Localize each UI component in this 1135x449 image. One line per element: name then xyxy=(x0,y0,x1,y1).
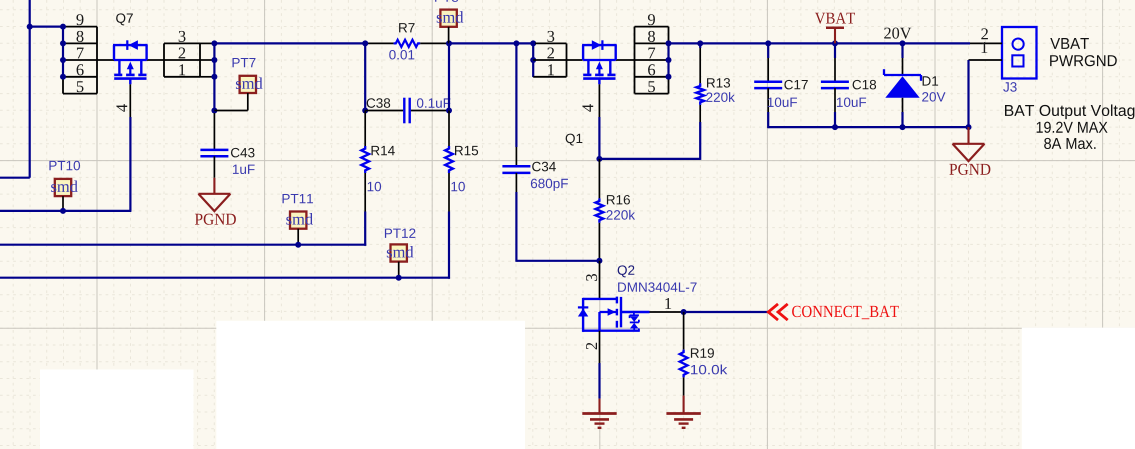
wire Q2 source to ground xyxy=(598,363,600,399)
transistor Q2 NMOS symbol xyxy=(578,297,650,332)
connector J3 xyxy=(1002,27,1037,92)
wire main bus R7 to Q1 xyxy=(449,40,536,46)
wire R15 to PT12 net xyxy=(0,212,450,279)
wire left vertical bus xyxy=(0,0,63,178)
Q2 pin 1 gate lead xyxy=(650,298,687,315)
wire Q7 left pin bus with junctions xyxy=(60,24,66,80)
diode D1 zener xyxy=(884,43,945,127)
wire Q1 gate net xyxy=(596,117,700,162)
wire Q1 source jumper xyxy=(530,43,536,77)
Q7 source pin box pins 3 2 1 xyxy=(164,31,214,77)
wire C34 to Q2 gate node xyxy=(516,192,602,264)
power PGND at J3 xyxy=(949,127,990,175)
Q1 drain pin box pins 9 8 7 6 5 xyxy=(635,14,669,94)
power VBAT xyxy=(815,13,855,44)
white occlusion rectangle bottom-right xyxy=(1022,328,1135,449)
resistor R7 xyxy=(362,23,452,59)
Q2 pin 2 lead xyxy=(586,331,599,363)
capacitor C18 xyxy=(821,43,876,127)
wire Q7 gate to PT10 net xyxy=(0,117,131,211)
wire source bus vertical xyxy=(211,40,217,113)
node PT10 xyxy=(49,161,80,214)
Q2 pin 3 lead xyxy=(586,261,599,299)
wire R14 branch xyxy=(362,43,368,113)
wire main bus Q1 to J3 xyxy=(669,40,971,46)
Q1 source pin box pins 3 2 1 xyxy=(533,31,566,77)
capacitor C17 xyxy=(754,43,808,128)
resistor R14 xyxy=(361,111,394,212)
ground R19 xyxy=(666,396,700,428)
Q2 label xyxy=(618,265,697,292)
power PGND under C43 xyxy=(195,178,236,225)
Q1 pin 4 gate lead xyxy=(582,84,599,117)
text BAT output note xyxy=(1005,104,1135,149)
white occlusion rectangle bottom-middle xyxy=(216,321,525,449)
text VBAT PWRGND xyxy=(1050,38,1117,66)
transistor Q7 PMOS symbol xyxy=(97,40,164,84)
capacitor C43 xyxy=(200,113,254,178)
wire R14 to PT11 net xyxy=(0,212,366,246)
resistor R16 xyxy=(596,159,636,261)
node PT12 xyxy=(385,228,415,280)
capacitor C34 xyxy=(502,43,568,192)
wire Q1 right pin bus xyxy=(666,40,672,79)
J3 pin 1 xyxy=(969,42,1003,127)
wire R15 branch xyxy=(446,43,452,113)
node PT11 xyxy=(283,194,314,248)
J3 pin 2 xyxy=(970,28,1002,43)
port CONNECT_BAT xyxy=(768,304,898,320)
node PT8 xyxy=(435,0,463,43)
resistor R13 xyxy=(696,43,735,122)
wire capacitor ground bus xyxy=(768,124,971,130)
capacitor C38 xyxy=(365,98,450,124)
Q7 label xyxy=(116,13,133,25)
wire main bus Q7 to R7 xyxy=(214,42,365,44)
ground Q2 source xyxy=(582,399,616,428)
Q7 drain pin box pins 9 8 7 6 5 xyxy=(63,14,97,94)
net label 20V xyxy=(884,28,911,39)
white occlusion rectangle bottom-left xyxy=(40,370,194,449)
Q7 pin 4 gate lead xyxy=(116,84,130,117)
wire to CONNECT_BAT port xyxy=(684,311,769,313)
resistor R19 xyxy=(680,312,728,396)
transistor Q1 PMOS symbol xyxy=(567,40,635,84)
Q1 label xyxy=(566,134,583,146)
node PT7 xyxy=(214,58,262,110)
resistor R15 xyxy=(445,111,478,212)
